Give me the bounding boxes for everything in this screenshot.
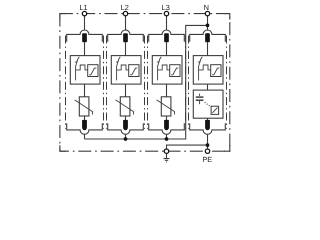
quenching element (hatched square) in U5 — [211, 106, 219, 114]
thermal disconnector (black) N — [205, 33, 210, 42]
terminal L3 — [164, 11, 168, 15]
terminal L2 — [123, 11, 127, 15]
spark gap unit box U1 — [70, 56, 100, 85]
wire — [84, 42, 86, 55]
protection module boundary right (col 3) — [185, 36, 187, 129]
plug-in contact top bracket (L3) — [149, 30, 185, 42]
thermal disconnector (black) L2 — [123, 33, 128, 42]
wire L1 bottom to bus — [84, 134, 86, 139]
spark gap element (small box) in U4 — [211, 65, 221, 77]
plug-in contact top bracket (L2) — [108, 30, 144, 42]
varistor RV1 — [79, 97, 89, 116]
protection module boundary left (col 1) — [65, 36, 67, 129]
wire PE node to earth terminal — [167, 145, 208, 149]
thermal disconnector (black) bottom N — [205, 120, 210, 130]
trigger-circuit step line in U1 — [76, 65, 88, 70]
wire N bottom to PE node — [207, 134, 209, 149]
disconnect switch symbol in U1 — [76, 57, 80, 81]
terminal PE — [205, 149, 209, 153]
plug-in contact bottom bracket (N) — [190, 123, 226, 134]
wire — [84, 16, 86, 31]
wire — [84, 84, 86, 97]
terminal L1 — [82, 11, 86, 15]
protection module boundary left (col 4) — [188, 36, 190, 129]
trigger-circuit step line in U3 — [158, 65, 170, 70]
wire L2 bottom to bus — [125, 134, 127, 139]
wire — [125, 116, 127, 120]
svg-text:PE: PE — [202, 155, 212, 164]
N-PE spark gap box U5 — [193, 90, 223, 118]
wire — [125, 84, 127, 97]
terminal N — [205, 11, 209, 15]
spark gap unit box U4 — [193, 56, 223, 85]
ground symbol — [164, 154, 170, 162]
protection module boundary right (col 1) — [103, 36, 105, 129]
varistor RV3 — [161, 97, 171, 116]
svg-text:L3: L3 — [162, 3, 170, 12]
junction bus-L2 — [124, 137, 128, 141]
protection module boundary left (col 3) — [147, 36, 149, 129]
disconnect switch symbol in U3 — [158, 57, 162, 81]
varistor RV2 — [120, 97, 130, 116]
disconnect switch symbol in U2 — [117, 57, 121, 81]
spark gap unit box U2 — [111, 56, 141, 85]
wire — [166, 116, 168, 120]
plug-in contact bottom bracket (L3) — [149, 123, 185, 134]
wire — [166, 16, 168, 31]
wire — [207, 118, 209, 120]
junction PE node — [206, 143, 210, 147]
thermal disconnector (black) bottom L1 — [82, 120, 87, 130]
wire — [125, 16, 127, 31]
plug-in contact top bracket (L1) — [67, 30, 103, 42]
spark gap element (small box) in U3 — [170, 65, 180, 77]
svg-text:L1: L1 — [79, 3, 87, 12]
plug-in contact bottom bracket (L1) — [67, 123, 103, 134]
common bus of phase arresters — [85, 25, 208, 139]
wire — [125, 42, 127, 55]
dotted arrow in U5 — [205, 102, 211, 107]
spark gap element (small box) in U1 — [88, 65, 98, 77]
protection module boundary left (col 2) — [106, 36, 108, 129]
enclosure corner joints — [60, 14, 230, 152]
thermal disconnector (black) L3 — [164, 33, 169, 42]
plug-in contact top bracket (N) — [190, 30, 226, 42]
device enclosure (dash-dot outline) — [60, 14, 230, 152]
plug-in contact bottom bracket (L2) — [108, 123, 144, 134]
junction bus-L3 — [165, 137, 169, 141]
wire — [207, 16, 209, 31]
wire — [166, 42, 168, 55]
disconnect switch symbol in U4 — [199, 57, 203, 81]
thermal disconnector (black) bottom L3 — [164, 120, 169, 130]
svg-text:N: N — [204, 3, 209, 12]
svg-text:L2: L2 — [121, 3, 129, 12]
terminal earth — [164, 149, 168, 153]
wire — [207, 84, 209, 90]
wire — [166, 84, 168, 97]
wire — [84, 116, 86, 120]
trigger-circuit step line in U2 — [117, 65, 129, 70]
spark gap unit box U3 — [152, 56, 182, 85]
junction N common node — [206, 24, 210, 28]
wire — [207, 42, 209, 55]
spark gap element (small box) in U2 — [129, 65, 139, 77]
wire L3 bottom to bus — [166, 134, 168, 139]
gas discharge gap electrodes in U5 — [196, 94, 204, 105]
protection module boundary right (col 2) — [144, 36, 146, 129]
thermal disconnector (black) bottom L2 — [123, 120, 128, 130]
trigger-circuit step line in U4 — [199, 65, 211, 70]
thermal disconnector (black) L1 — [82, 33, 87, 42]
protection module boundary right (col 4) — [226, 36, 228, 129]
